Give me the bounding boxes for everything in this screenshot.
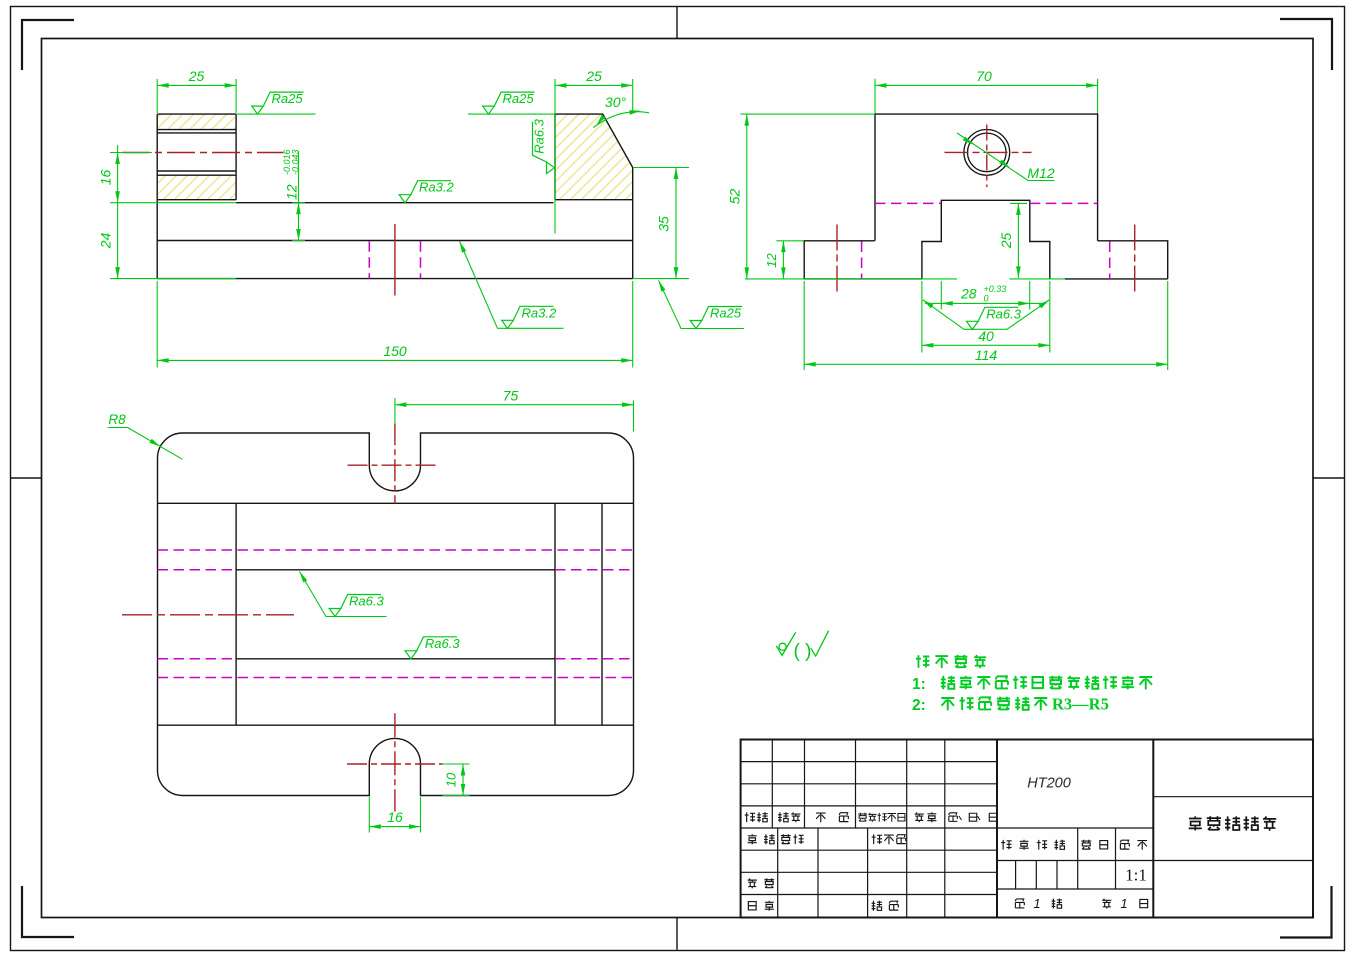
side view: bottom edge left segment (under green ext) xyxy=(804,278,922,280)
plan view: centerlines (red) xyxy=(394,423,396,503)
svg-text:25: 25 xyxy=(998,233,1014,250)
plan view: body edges xyxy=(158,502,634,504)
front view: right jaw block hatch xyxy=(555,114,633,200)
side view: upper block outline xyxy=(875,114,1098,241)
svg-text:Ra25: Ra25 xyxy=(272,91,304,106)
designer name xyxy=(781,834,791,843)
roughness Ra25 above right jaw xyxy=(468,113,555,115)
label stage mark xyxy=(1001,840,1011,850)
side view: bottom edge right segment xyxy=(1065,278,1168,280)
svg-text:30°: 30° xyxy=(605,94,627,110)
svg-text:75: 75 xyxy=(503,388,519,404)
label QianMing (signature) xyxy=(915,812,924,822)
svg-text:16: 16 xyxy=(98,170,114,186)
roughness Ra25 leader to body bottom xyxy=(659,280,745,328)
border band divider bottom xyxy=(676,918,678,951)
svg-text:25: 25 xyxy=(188,68,205,84)
dimension 16 xyxy=(368,797,370,833)
dimension 52 xyxy=(741,113,876,115)
svg-text:Ra25: Ra25 xyxy=(503,91,535,106)
front view: right jaw block outline with 30deg chamfer xyxy=(555,114,633,200)
side view: left wing xyxy=(804,241,874,279)
label SheJi (design) xyxy=(748,834,757,844)
M12 hole centerlines (red) xyxy=(945,151,1032,153)
corner trim mark bottom-right xyxy=(1280,886,1332,938)
svg-text:+0.33: +0.33 xyxy=(984,284,1007,294)
border band divider left xyxy=(11,477,42,479)
dimension 75 xyxy=(394,398,396,423)
corner trim mark bottom-left xyxy=(22,886,74,937)
dimension 24 xyxy=(110,278,236,280)
side view: hidden hole lines (magenta dashed) xyxy=(861,242,863,279)
dimension 16 xyxy=(110,152,152,154)
side view: hole centerlines (red) xyxy=(836,225,838,296)
label ChuShu (count) xyxy=(778,812,788,822)
title block outer xyxy=(741,740,1313,918)
roughness Ra3.2 leader to body middle xyxy=(460,241,564,328)
svg-text:Ra6.3: Ra6.3 xyxy=(986,306,1021,321)
svg-text:0: 0 xyxy=(984,294,989,304)
label standardization xyxy=(872,834,882,844)
roughness Ra3.2 on body top xyxy=(399,195,411,203)
roughness Ra6.3 rotated on jaw inner face xyxy=(532,118,555,173)
technical requirements heading xyxy=(916,655,930,668)
label PiZhun (approve) xyxy=(872,901,882,911)
svg-text:Ra3.2: Ra3.2 xyxy=(522,305,557,320)
dimension 25 (right jaw) xyxy=(554,79,556,234)
border band divider right xyxy=(1313,477,1345,479)
front view: hidden slot edges (magenta dashed) xyxy=(368,241,370,278)
label year month day xyxy=(949,813,958,822)
front view: left jaw block outline xyxy=(157,114,236,200)
extension to 35/52 at body bottom right xyxy=(633,278,689,280)
label scale xyxy=(1120,840,1129,849)
roughness Ra6.3 leader in slot xyxy=(300,572,387,617)
part name TaiHuQianQianZuo xyxy=(1189,816,1202,830)
side view: guide rail tongue xyxy=(922,200,1050,279)
svg-text:16: 16 xyxy=(387,809,403,825)
svg-text:Ra6.3: Ra6.3 xyxy=(532,118,547,153)
corner trim mark top-left xyxy=(22,20,74,70)
front view: jaw hatch upper-left band xyxy=(157,114,236,130)
svg-text:-0.043: -0.043 xyxy=(290,149,300,175)
M12 tapped hole circles xyxy=(964,130,1010,176)
dimension 35 xyxy=(633,167,689,169)
svg-text:1:: 1: xyxy=(912,676,926,693)
front view: jaw hatch lower-left band xyxy=(157,175,236,200)
svg-text:28: 28 xyxy=(960,286,977,302)
sheet count row xyxy=(1015,899,1024,908)
label BiaoJi (mark) xyxy=(745,812,755,822)
svg-text:R3—R5: R3—R5 xyxy=(1052,695,1109,714)
svg-text:24: 24 xyxy=(98,233,114,250)
dimension 150 xyxy=(156,281,158,368)
svg-text:Ra6.3: Ra6.3 xyxy=(349,594,384,609)
svg-text:R8: R8 xyxy=(108,412,126,427)
side view: hidden body seam (magenta dashed) xyxy=(875,202,941,204)
svg-text:Ra3.2: Ra3.2 xyxy=(419,180,454,195)
roughness Ra6.3 double leader on slot flanks xyxy=(923,300,1050,330)
dimension 25 (left jaw width) xyxy=(156,79,158,113)
svg-text:1: 1 xyxy=(1120,896,1127,911)
dimension 40 (slot lower width) xyxy=(921,281,923,353)
svg-text:35: 35 xyxy=(656,216,672,232)
label GongYi (process) xyxy=(748,902,756,910)
front view: left edge xyxy=(156,114,158,279)
side view: right wing xyxy=(1098,241,1168,279)
front view: body middle line xyxy=(157,240,633,242)
front view: body top line xyxy=(236,202,553,204)
svg-text:12: 12 xyxy=(764,253,779,268)
corner trim mark top-right xyxy=(1280,19,1332,70)
label ShenHe (check) xyxy=(748,879,757,889)
dimension 70 xyxy=(874,79,876,114)
dimension 28 +0.33 (slot width) xyxy=(940,281,942,310)
svg-text:25: 25 xyxy=(585,68,602,84)
plan view: outer rounded outline with keyway notches xyxy=(158,433,634,796)
front view: slot centerline (red) vertical xyxy=(394,224,396,296)
other-surfaces roughness note xyxy=(776,632,795,655)
svg-text:40: 40 xyxy=(978,328,994,344)
svg-text:Ra6.3: Ra6.3 xyxy=(425,636,460,651)
front view: body bottom line xyxy=(157,278,633,280)
svg-text:1: 1 xyxy=(1033,896,1040,911)
front view: body right edge xyxy=(632,168,634,279)
svg-text:2:: 2: xyxy=(912,697,926,714)
svg-text:HT200: HT200 xyxy=(1027,776,1071,792)
roughness Ra25 on jaw top xyxy=(237,113,316,115)
title block grid lines xyxy=(741,761,997,763)
dimension 114 xyxy=(803,281,805,370)
label weight xyxy=(1081,840,1091,849)
label change file no. xyxy=(858,813,867,821)
svg-text:52: 52 xyxy=(727,189,743,205)
front view: bore centerline (red) horizontal xyxy=(122,152,284,154)
plan view: slot visible edges xyxy=(236,569,555,571)
svg-text:( ): ( ) xyxy=(794,641,812,662)
dimension 25 (rail height) xyxy=(1010,278,1066,280)
svg-text:1:1: 1:1 xyxy=(1125,866,1147,885)
svg-text:150: 150 xyxy=(383,343,407,359)
svg-text:10: 10 xyxy=(444,772,459,787)
svg-text:70: 70 xyxy=(976,68,992,84)
dimension 10 xyxy=(443,763,470,765)
dimension 12 (base height) xyxy=(776,240,804,242)
label FenQu (zone) xyxy=(816,813,826,822)
plan view: slot hidden edges (magenta) xyxy=(158,569,237,571)
roughness Ra6.3 on slot lower edge xyxy=(405,651,417,659)
svg-text:M12: M12 xyxy=(1027,165,1054,181)
border band divider top xyxy=(676,7,678,39)
dimension 12 with tolerance xyxy=(298,151,300,241)
svg-text:Ra25: Ra25 xyxy=(710,306,742,321)
M12 leader xyxy=(957,133,1055,181)
plan view: jaw block edges xyxy=(235,503,237,725)
svg-text:114: 114 xyxy=(975,347,998,363)
svg-text:12: 12 xyxy=(284,184,300,200)
